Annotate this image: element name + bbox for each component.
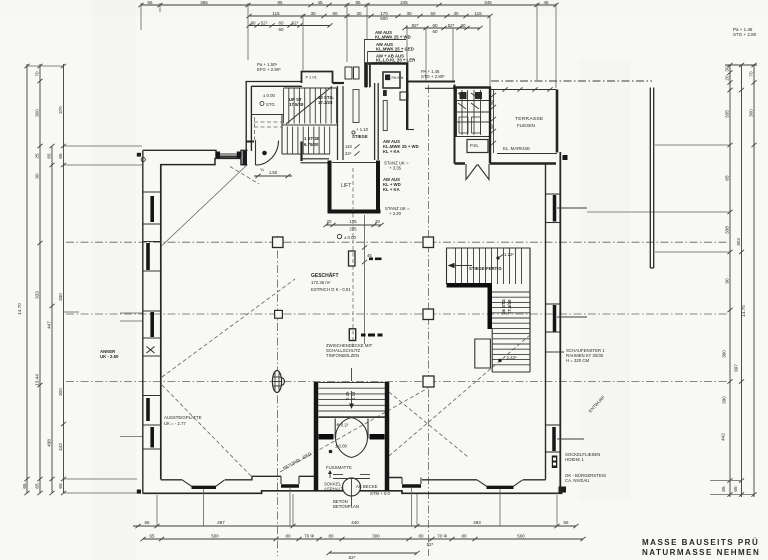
wc divider lines <box>457 101 490 113</box>
lift top threshold <box>332 162 376 164</box>
dim row B ticks <box>246 14 492 18</box>
right note 1 leader <box>546 351 564 353</box>
svg-text:65: 65 <box>725 175 730 181</box>
stair block top wall right part <box>333 82 345 84</box>
svg-text:TERRASSE: TERRASSE <box>515 116 544 122</box>
svg-text:1.22⁵: 1.22⁵ <box>504 252 514 257</box>
terrace east wall <box>556 90 559 153</box>
dim row C left line <box>249 25 330 27</box>
dim leader verticals top <box>141 3 556 88</box>
svg-text:1 STGE: 1 STGE <box>304 136 319 141</box>
stair S4 door stub left <box>319 434 334 440</box>
bottom row2 numbers <box>149 534 525 539</box>
svg-text:333: 333 <box>35 291 40 299</box>
svg-text:60: 60 <box>332 11 338 16</box>
left chain numbers rotated <box>17 71 63 489</box>
dim row A numbers <box>147 0 549 5</box>
dim row A ticks <box>138 3 558 7</box>
svg-text:30: 30 <box>406 11 412 16</box>
stair S4 door lens right arc <box>352 418 368 458</box>
svg-text:FUSSMATTE: FUSSMATTE <box>326 465 352 470</box>
svg-text:60: 60 <box>278 21 284 26</box>
svg-text:300: 300 <box>372 534 380 539</box>
stair S4 leaf edges <box>335 419 368 439</box>
svg-text:65: 65 <box>149 534 155 539</box>
left wall inner line <box>160 164 162 480</box>
pier leader lines <box>557 208 587 439</box>
svg-text:52⁵: 52⁵ <box>448 23 455 28</box>
fussmatte arrow <box>328 470 332 478</box>
entry threshold steps <box>333 475 370 479</box>
DIMS-BOTTOM <box>133 494 760 560</box>
stairwell mid wall <box>338 86 344 160</box>
svg-text:FLIESEN: FLIESEN <box>517 123 535 128</box>
svg-text:PA+NN: PA+NN <box>392 76 404 80</box>
stair S1 treads upper <box>284 89 337 124</box>
svg-text:6.75/30: 6.75/30 <box>304 142 319 147</box>
stair S3 rotated label <box>501 299 512 314</box>
svg-text:30: 30 <box>453 11 459 16</box>
svg-text:+ 2.20: + 2.20 <box>389 211 402 216</box>
dim row B numbers <box>272 11 482 21</box>
label stack underline 3 <box>371 63 400 88</box>
svg-text:80: 80 <box>461 534 467 539</box>
stair S3 right edge <box>529 248 531 372</box>
svg-text:≙ 0.2⁵: ≙ 0.2⁵ <box>336 423 349 428</box>
room diagonal D3 <box>162 385 251 476</box>
svg-text:45: 45 <box>367 253 372 258</box>
stanz note 1 <box>384 161 409 171</box>
stair S4 door lens left arc <box>336 418 352 458</box>
tower outer wall <box>366 64 407 131</box>
svg-text:50: 50 <box>489 100 494 105</box>
svg-text:60: 60 <box>432 29 438 34</box>
stair S4 left wall <box>314 382 319 491</box>
bottom corner marker <box>137 490 141 494</box>
terrace door gap <box>465 161 490 166</box>
stair S1 landing line <box>252 114 284 116</box>
stair S1 treads lower <box>287 127 329 154</box>
svg-text:ESTRICH O K - 0,01: ESTRICH O K - 0,01 <box>311 287 351 292</box>
lift label stack B <box>383 177 401 192</box>
svg-text:30: 30 <box>725 66 730 72</box>
svg-text:60: 60 <box>432 23 438 28</box>
stiege label <box>345 127 369 156</box>
stair block left wall <box>246 81 251 152</box>
right wall pier bar 2 <box>553 305 557 332</box>
svg-text:EFG + 2.80⁵: EFG + 2.80⁵ <box>257 67 281 72</box>
stair S4 door top line <box>319 417 386 419</box>
left wall tie lines <box>143 192 161 449</box>
node column ellipse V1-H3 <box>272 371 284 393</box>
stair S1 level mark <box>260 93 276 107</box>
svg-text:52⁵: 52⁵ <box>261 21 268 26</box>
top left mini note <box>257 62 281 72</box>
svg-text:300: 300 <box>58 388 63 396</box>
svg-text:175: 175 <box>349 219 357 224</box>
svg-text:62⁵: 62⁵ <box>292 21 299 26</box>
left wall pier bars <box>148 196 152 448</box>
svg-text:330: 330 <box>58 293 63 301</box>
svg-text:65: 65 <box>733 486 738 492</box>
svg-text:110: 110 <box>345 144 352 149</box>
room diagonal D7 <box>389 392 468 457</box>
svg-text:85: 85 <box>277 0 283 5</box>
stair S3 bottom edge <box>492 371 530 373</box>
stair S4 right wall <box>385 382 390 491</box>
svg-text:45: 45 <box>543 0 549 5</box>
svg-text:AK BECKE: AK BECKE <box>356 484 378 489</box>
svg-text:STG + 2.80⁵: STG + 2.80⁵ <box>421 74 445 79</box>
svg-text:115: 115 <box>474 11 482 16</box>
svg-text:60: 60 <box>430 11 436 16</box>
svg-text:BETONPLAN: BETONPLAN <box>333 504 359 509</box>
svg-text:50: 50 <box>489 124 494 129</box>
axis H1 <box>66 241 729 243</box>
terrace door wall <box>455 162 557 164</box>
room diagonal D6 <box>389 335 530 456</box>
wc bottom wall <box>456 136 490 138</box>
svg-text:P.KL: P.KL <box>470 143 479 148</box>
svg-text:NATURMASSE NEHMEN: NATURMASSE NEHMEN <box>642 548 760 557</box>
svg-text:¼: ¼ <box>260 167 264 172</box>
stair S4 arrow down <box>349 368 354 409</box>
right note 1 <box>566 348 605 363</box>
node square V2-H1 <box>423 237 434 248</box>
terrace north edge <box>491 89 557 91</box>
bottom recess trapezoid right <box>477 480 523 488</box>
top window dashed diag <box>230 167 259 185</box>
STAIRS <box>252 87 530 510</box>
right chain top bar <box>725 64 757 66</box>
room diagonal D2 <box>162 279 295 377</box>
tower inner cab <box>383 72 400 88</box>
svg-text:GESCHÄFT: GESCHÄFT <box>311 272 339 279</box>
terrace door leaves <box>466 164 489 180</box>
stair S1 lower bottom edge <box>282 153 330 155</box>
left chain lines <box>27 64 64 493</box>
right wall outer line <box>559 152 561 493</box>
svg-text:STG + 2.80: STG + 2.80 <box>733 32 757 37</box>
bottom row2 ticks <box>140 537 585 541</box>
bottom row2 line <box>143 538 583 540</box>
svg-text:30: 30 <box>250 21 256 26</box>
DIMS-RIGHT <box>587 63 757 497</box>
svg-text:345: 345 <box>484 0 492 5</box>
svg-text:KL.MWK 25 + WD: KL.MWK 25 + WD <box>375 35 411 40</box>
label stack text 2 <box>376 42 414 52</box>
svg-text:303: 303 <box>736 238 741 246</box>
svg-text:14.70: 14.70 <box>17 303 22 315</box>
dim row C right ticks <box>402 26 482 30</box>
right wall fixture chunk <box>552 456 558 469</box>
svg-text:45: 45 <box>317 0 323 5</box>
svg-text:225: 225 <box>349 227 357 232</box>
terrace mini dim <box>489 90 496 153</box>
svg-text:TINFONBOLZEN: TINFONBOLZEN <box>326 353 359 358</box>
lift bottom dim <box>323 219 383 232</box>
svg-text:390: 390 <box>722 396 727 404</box>
svg-text:+ 1.10: + 1.10 <box>356 127 369 132</box>
stair S4 tread mini dim <box>345 391 356 400</box>
axis V2 <box>428 85 430 556</box>
bottom wall outer line <box>143 491 563 494</box>
wc hatch marks <box>457 93 490 122</box>
dim row C right numbers <box>412 23 466 34</box>
right note 2 <box>565 452 600 462</box>
svg-text:442: 442 <box>721 433 726 441</box>
stair S2 level label <box>496 252 514 260</box>
stair S3 left edge lower <box>491 329 493 372</box>
axis V1 <box>277 236 279 556</box>
terrace dashed boundary <box>491 80 652 82</box>
dim row A line <box>141 4 556 6</box>
svg-text:14.70: 14.70 <box>741 305 746 317</box>
svg-text:ASPHALT: ASPHALT <box>324 487 344 492</box>
vestibule door leaf <box>255 140 257 165</box>
svg-text:STG: STG <box>266 102 275 107</box>
tower wall foot jog <box>406 129 414 131</box>
svg-text:30: 30 <box>460 23 466 28</box>
diagonal label BETONPLATTE <box>280 388 428 472</box>
wall tower to wc <box>406 82 455 89</box>
svg-text:360: 360 <box>722 350 727 358</box>
stair S3 level label <box>498 355 517 362</box>
svg-text:65: 65 <box>147 0 153 5</box>
svg-text:+ 3.35: + 3.35 <box>389 166 402 171</box>
mkl box <box>467 140 488 153</box>
wc left wall <box>455 88 457 138</box>
svg-text:STIEGE: STIEGE <box>352 134 368 139</box>
node square V1-H1 <box>273 237 284 248</box>
svg-text:HOEHE 1: HOEHE 1 <box>565 457 584 462</box>
svg-text:497: 497 <box>217 520 225 525</box>
wc top wall <box>453 86 491 89</box>
entry leader line <box>351 496 353 506</box>
building wall at terrace <box>489 88 491 164</box>
svg-text:80: 80 <box>418 534 424 539</box>
svg-text:± 0.00: ± 0.00 <box>335 444 348 449</box>
top wall inner line <box>161 158 246 164</box>
top wall window caps <box>216 152 242 159</box>
left chain ticks <box>24 64 66 495</box>
svg-text:KL + KA: KL + KA <box>383 149 400 154</box>
svg-text:65: 65 <box>22 483 27 489</box>
right wall pier bar 3 <box>552 427 556 451</box>
dim row C left numbers <box>250 21 298 33</box>
bottom row1 numbers <box>144 520 569 525</box>
lift right wall <box>376 161 380 214</box>
wc fixtures verticals <box>462 90 481 135</box>
vestibule interior wall stub <box>246 141 254 143</box>
svg-text:CA. NIVEAU: CA. NIVEAU <box>565 478 589 483</box>
svg-text:MASSE BAUSEITS PRÜ: MASSE BAUSEITS PRÜ <box>642 538 759 547</box>
svg-text:AUSSTEIGPLATTE: AUSSTEIGPLATTE <box>164 415 202 420</box>
lift guide tick <box>362 245 372 264</box>
lift guide lines <box>353 168 365 347</box>
zwischenwand dash bar B <box>361 334 383 337</box>
svg-text:115: 115 <box>272 11 280 16</box>
label stack text 3 <box>376 54 416 63</box>
stair S1 labels <box>289 95 334 147</box>
svg-text:- 2.42⁵: - 2.42⁵ <box>504 355 517 360</box>
stair S2 black wall horizontal <box>447 283 491 288</box>
zwischenwand dash bar A <box>369 258 382 261</box>
stair S1 door leaf dashed <box>254 117 256 140</box>
top mid note <box>421 69 445 79</box>
terrace edge ticks <box>502 87 552 91</box>
svg-text:LIFT: LIFT <box>341 183 351 189</box>
bottom row4 ticks <box>326 551 419 555</box>
black marker dot <box>563 155 568 160</box>
bottom tick drops <box>157 494 557 526</box>
right chain ticks <box>727 63 756 497</box>
svg-text:13.44: 13.44 <box>35 374 40 386</box>
stair S2 black wall vertical <box>488 283 493 329</box>
svg-text:65: 65 <box>35 483 40 489</box>
entry column inner line <box>351 478 353 496</box>
svg-text:65: 65 <box>58 483 63 489</box>
svg-text:90: 90 <box>35 173 40 179</box>
svg-text:UK - 2.50: UK - 2.50 <box>100 354 119 359</box>
svg-text:80: 80 <box>328 534 334 539</box>
wc fixture boxes <box>459 92 482 133</box>
label stack underline 1 <box>364 40 406 88</box>
corner marker square <box>137 153 141 157</box>
svg-text:172.36 m²: 172.36 m² <box>311 280 331 285</box>
svg-text:370: 370 <box>58 106 63 114</box>
stair S3 treads <box>492 292 530 365</box>
bottom recess trapezoid left <box>182 480 225 488</box>
svg-text:60: 60 <box>278 27 284 32</box>
node square V2-H3 <box>423 376 434 387</box>
svg-text:KL.MWK 25 + GED: KL.MWK 25 + GED <box>376 47 414 52</box>
axis H2 <box>66 313 729 315</box>
svg-text:442: 442 <box>58 443 63 451</box>
right wall inner line <box>545 164 547 480</box>
duct rect <box>383 101 387 131</box>
svg-text:17.5/30: 17.5/30 <box>507 299 512 314</box>
svg-text:335: 335 <box>725 110 730 118</box>
DIMS-TOP <box>138 0 756 88</box>
svg-text:P 1 01: P 1 01 <box>306 75 317 80</box>
corridor handrail lines <box>353 90 359 123</box>
fixture blob <box>383 90 387 96</box>
svg-text:65: 65 <box>144 520 150 525</box>
svg-text:H = 320 CM: H = 320 CM <box>566 358 589 363</box>
stair S4 door stub right <box>370 434 385 440</box>
label stack text 1 <box>375 30 411 40</box>
svg-text:20: 20 <box>725 75 730 81</box>
svg-text:25: 25 <box>35 153 40 159</box>
stair S4 treads <box>319 383 386 417</box>
svg-text:STIEGE FERTIG: STIEGE FERTIG <box>469 266 502 271</box>
top wall window sill lines <box>216 154 241 157</box>
svg-text:KL.LO.KL 20 + LER: KL.LO.KL 20 + LER <box>376 58 416 63</box>
vestibule door dim line <box>254 167 292 178</box>
AXES <box>66 85 729 556</box>
left wall x-mark <box>147 347 155 354</box>
stair S1 landing dashes <box>254 122 282 127</box>
stair S2 outline <box>447 248 531 333</box>
zwischendecke note <box>326 343 373 358</box>
svg-text:± 0.00: ± 0.00 <box>263 93 276 98</box>
svg-text:493: 493 <box>473 520 481 525</box>
left leader lines <box>27 66 143 493</box>
svg-text:17.3/28: 17.3/28 <box>318 100 333 105</box>
dim row C right line <box>405 27 480 29</box>
svg-text:338: 338 <box>725 226 730 234</box>
svg-text:17.5/28: 17.5/28 <box>289 102 304 107</box>
WALLS <box>137 30 654 526</box>
bottom row4 line <box>329 552 417 554</box>
small box below tower wall <box>400 92 408 100</box>
svg-text:UK = - 2.77: UK = - 2.77 <box>164 421 186 426</box>
svg-text:300: 300 <box>749 109 754 117</box>
axis H3 <box>66 381 729 383</box>
stair S1 band divider <box>281 115 283 155</box>
fixture box B <box>354 67 360 79</box>
left wall outer line <box>142 151 144 494</box>
el markise line <box>497 153 557 155</box>
P101 box <box>302 72 333 84</box>
svg-text:82⁵: 82⁵ <box>412 23 419 28</box>
svg-text:70: 70 <box>749 71 754 77</box>
svg-text:52⁵: 52⁵ <box>427 542 434 547</box>
stair S1 mid line <box>282 124 337 126</box>
svg-text:997: 997 <box>734 364 739 372</box>
bottom row1 line <box>133 525 576 527</box>
svg-text:2.25: 2.25 <box>345 391 350 400</box>
zwischendecke rect <box>349 329 355 341</box>
lift left wall <box>328 161 332 214</box>
svg-text:365: 365 <box>200 0 208 5</box>
corridor wall below P101 <box>300 142 302 162</box>
svg-text:500: 500 <box>517 534 525 539</box>
right note 3 <box>565 473 607 483</box>
stair S2 treads <box>456 248 522 284</box>
bottom wall inner line <box>161 476 546 480</box>
svg-text:30: 30 <box>356 11 362 16</box>
svg-text:1.50: 1.50 <box>269 170 278 175</box>
svg-text:EL. MARKISE: EL. MARKISE <box>503 146 530 151</box>
DIMS-LEFT <box>17 64 143 495</box>
svg-text:70 Φ: 70 Φ <box>304 534 314 539</box>
bottom row1 ticks <box>135 524 578 528</box>
stanz note 2 <box>385 206 410 216</box>
stair S2 arrow <box>448 263 473 269</box>
stair S1 door hinge dot <box>262 151 267 156</box>
svg-text:65: 65 <box>58 153 63 159</box>
bottom recess niche left <box>281 476 299 486</box>
svg-text:70: 70 <box>35 71 40 77</box>
svg-text:500: 500 <box>380 16 388 21</box>
top wall outer line <box>143 150 248 156</box>
svg-text:22⁵: 22⁵ <box>345 151 352 156</box>
node square V2-H2 <box>423 309 434 320</box>
tower inner wall line <box>369 64 371 88</box>
fixture box A <box>345 67 352 79</box>
svg-text:85: 85 <box>355 0 361 5</box>
level mark center <box>337 234 356 240</box>
svg-text:245: 245 <box>400 0 408 5</box>
stair S1 top edge <box>284 87 338 89</box>
right wall pier bar 1 <box>553 195 557 222</box>
entry column circle <box>343 478 361 496</box>
svg-text:80: 80 <box>285 534 291 539</box>
bottom right corner chunk <box>559 487 567 493</box>
top wall corner chunk <box>243 151 248 166</box>
